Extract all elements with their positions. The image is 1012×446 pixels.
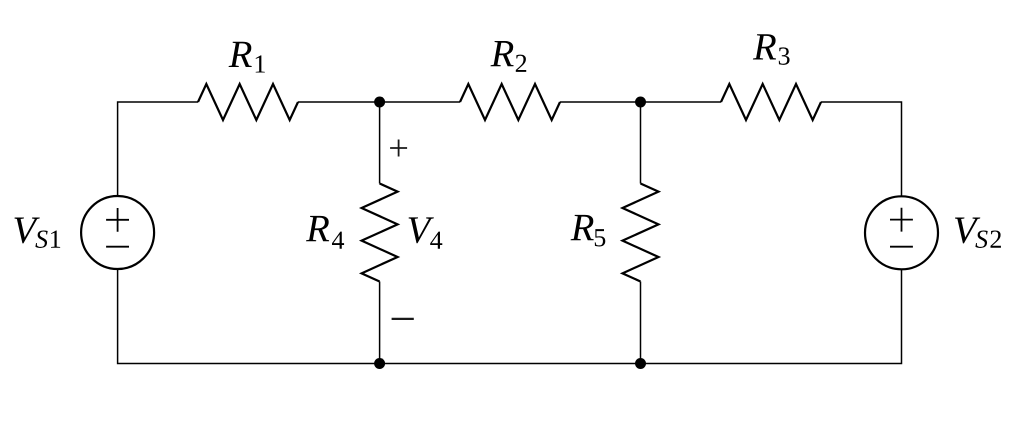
label VS1: [14, 218, 60, 248]
wire top-right segment: [821, 102, 902, 196]
voltage source VS1: [81, 196, 154, 269]
wire bottom rail with left and right rail lower segments: [118, 269, 902, 364]
voltage source VS2: [865, 196, 938, 269]
label R5: [571, 215, 606, 247]
wire R5 upper stub: [640, 102, 642, 184]
node top A: [374, 97, 385, 108]
label R3: [753, 34, 790, 65]
VS1 minus mark: [106, 246, 129, 248]
wire R4 lower stub: [379, 282, 381, 364]
polarity plus V4: [390, 140, 407, 157]
VS2 plus mark: [890, 208, 913, 232]
wire R5 lower stub: [640, 282, 642, 364]
label R1: [229, 42, 265, 73]
resistor R4: [362, 184, 398, 282]
node bottom A: [374, 358, 385, 369]
node top B: [635, 97, 646, 108]
wire R4 upper stub: [379, 102, 381, 184]
label V4: [409, 217, 443, 248]
resistor R5: [623, 184, 659, 282]
wire top segment R1 to R2: [298, 101, 460, 103]
wire top-left segment: [118, 102, 198, 196]
label R4: [306, 216, 344, 249]
polarity minus V4: [392, 318, 414, 320]
label R2: [491, 41, 527, 72]
VS2 minus mark: [890, 246, 913, 248]
resistor R3: [721, 84, 821, 120]
node bottom B: [635, 358, 646, 369]
resistor R2: [460, 84, 560, 120]
label VS2: [955, 218, 1001, 248]
wire top segment R2 to R3: [560, 101, 721, 103]
resistor R1: [198, 84, 298, 120]
VS1 plus mark: [106, 208, 129, 232]
